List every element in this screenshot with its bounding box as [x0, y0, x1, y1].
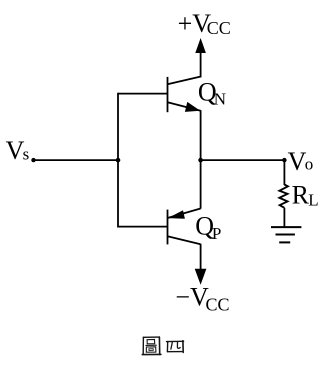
output terminal dot: [282, 158, 286, 162]
svg-text:V: V: [288, 147, 307, 176]
wire base vertical: [117, 93, 119, 228]
label Vo: [288, 147, 314, 176]
label +VCC: [178, 9, 231, 38]
junction base node: [116, 158, 121, 163]
wire input Vs to base node: [34, 159, 119, 161]
svg-text:P: P: [212, 224, 221, 243]
label -VCC: [175, 282, 229, 314]
caption figure four (圖): [142, 337, 161, 355]
svg-text:CC: CC: [207, 18, 231, 38]
svg-text:R: R: [292, 181, 310, 210]
resistor RL: [279, 185, 288, 208]
input terminal dot: [31, 158, 35, 162]
wire RL to ground: [283, 208, 285, 227]
wire QP collector with down arrow to -VCC: [195, 244, 207, 285]
wire QN emitter to output node: [200, 110, 202, 160]
wire +VCC supply with up arrow: [195, 38, 206, 77]
transistor QP (PNP): [168, 209, 201, 245]
label QP: [195, 212, 221, 244]
wire Vo down to RL: [283, 160, 285, 185]
label RL: [292, 181, 319, 210]
junction output node: [198, 158, 203, 163]
wire output node to QP emitter: [200, 160, 202, 209]
svg-text:−V: −V: [175, 282, 209, 311]
svg-text:L: L: [308, 190, 318, 209]
svg-text:CC: CC: [206, 294, 230, 314]
label QN: [198, 78, 226, 109]
wire QP base: [118, 226, 168, 228]
ground symbol: [271, 227, 301, 242]
svg-text:N: N: [214, 90, 226, 109]
wire QN base: [118, 93, 168, 95]
svg-text:s: s: [23, 145, 30, 164]
svg-text:o: o: [305, 155, 314, 174]
wire output node to Vo: [201, 159, 285, 161]
caption figure four (四): [167, 341, 184, 353]
transistor QN (NPN): [168, 76, 202, 112]
label Vs: [6, 136, 30, 165]
